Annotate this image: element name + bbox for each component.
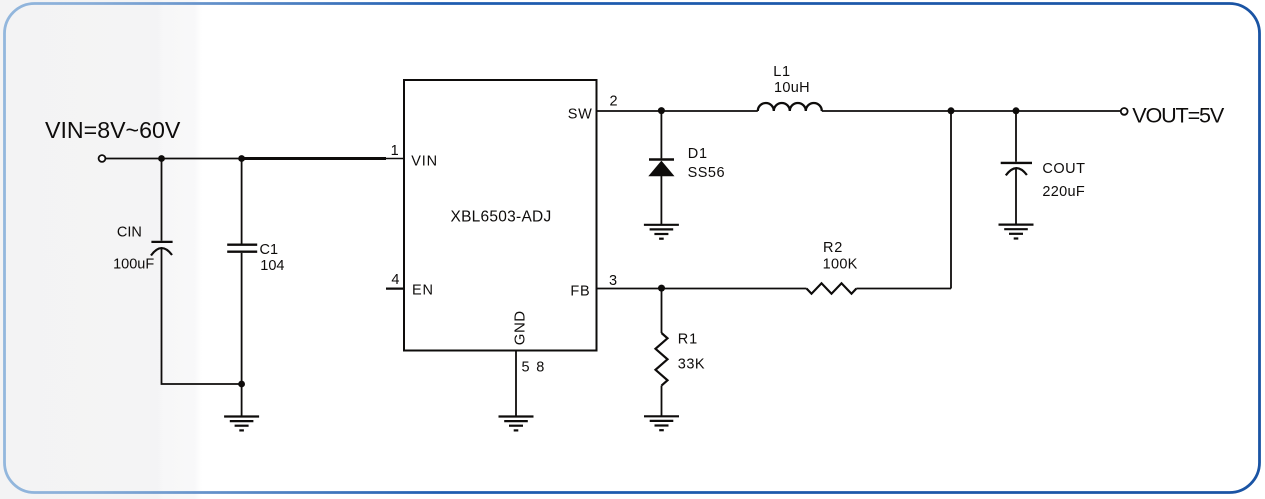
- op-amp U1 XBL6503-ADJ IC body: [404, 80, 597, 351]
- inductor L1: [758, 103, 822, 111]
- node junction SW-D1: [658, 107, 665, 114]
- node junction VIN-C1: [238, 155, 245, 162]
- wire R2 to vertical: [856, 288, 951, 290]
- ground below D1: [644, 225, 679, 239]
- wire SW net from pin 2: [597, 110, 758, 112]
- wire FB net from pin 3: [597, 288, 807, 290]
- svg-text:104: 104: [260, 258, 284, 274]
- svg-text:D1: D1: [688, 146, 708, 162]
- svg-text:C1: C1: [260, 242, 279, 258]
- wire COUT to ground: [1015, 169, 1017, 225]
- ground below R1: [644, 416, 679, 430]
- svg-text:EN: EN: [412, 283, 434, 299]
- node VOUT terminal: [1121, 108, 1128, 115]
- svg-text:VIN=8V~60V: VIN=8V~60V: [45, 117, 181, 143]
- svg-text:L1: L1: [773, 64, 791, 80]
- svg-text:CIN: CIN: [117, 224, 142, 240]
- svg-text:4: 4: [391, 272, 399, 288]
- ground below C1: [224, 417, 259, 431]
- svg-text:1: 1: [391, 143, 399, 159]
- node junction VIN-CIN: [158, 155, 165, 162]
- wire CIN bottom: [162, 249, 242, 384]
- svg-text:100K: 100K: [823, 256, 858, 272]
- wire COUT drop: [1015, 111, 1017, 162]
- svg-text:R2: R2: [823, 240, 843, 256]
- svg-text:VIN: VIN: [411, 153, 438, 169]
- wire VIN rail thin: [106, 158, 242, 160]
- ground below COUT: [999, 225, 1034, 239]
- wire VIN rail thick: [242, 157, 387, 160]
- svg-text:100uF: 100uF: [113, 257, 154, 273]
- diode D1 cathode bar: [649, 158, 674, 160]
- node junction rail-COUT: [1013, 107, 1020, 114]
- wire VIN pin stub: [386, 158, 404, 160]
- ground below GND pin: [499, 417, 534, 431]
- svg-text:SW: SW: [568, 107, 593, 123]
- svg-text:XBL6503-ADJ: XBL6503-ADJ: [451, 209, 552, 226]
- resistor R2: [807, 283, 857, 293]
- node VIN input terminal: [99, 155, 106, 162]
- svg-text:220uF: 220uF: [1042, 184, 1085, 200]
- wire D1 to ground: [660, 176, 662, 225]
- svg-text:10uH: 10uH: [774, 80, 810, 96]
- resistor R1: [656, 333, 668, 386]
- wire feedback vertical from rail: [950, 111, 952, 289]
- svg-text:FB: FB: [570, 284, 590, 300]
- svg-text:GND: GND: [512, 310, 529, 345]
- wire CIN top: [161, 159, 163, 241]
- svg-text:COUT: COUT: [1042, 161, 1085, 177]
- wire SW net after L1: [822, 110, 1121, 112]
- node junction FB-R1: [658, 285, 665, 292]
- svg-text:SS56: SS56: [688, 165, 725, 181]
- wire R1 top: [661, 289, 663, 334]
- capacitor CIN: [151, 242, 173, 256]
- wire D1 anode drop: [660, 111, 662, 158]
- wire C1 bottom: [241, 253, 243, 416]
- svg-text:5 8: 5 8: [522, 360, 546, 376]
- svg-text:VOUT=5V: VOUT=5V: [1132, 102, 1225, 127]
- wire R1 bottom: [661, 386, 663, 416]
- node junction CIN-C1 ground net: [238, 381, 245, 388]
- svg-text:R1: R1: [678, 331, 698, 347]
- svg-text:3: 3: [609, 273, 617, 289]
- svg-text:33K: 33K: [678, 356, 705, 372]
- node junction rail-R2: [948, 107, 955, 114]
- wire EN pin stub: [386, 288, 404, 290]
- svg-text:2: 2: [609, 94, 617, 110]
- wire GND pin stub: [515, 351, 517, 417]
- capacitor COUT: [1001, 163, 1032, 176]
- wire C1 top: [241, 159, 243, 245]
- diode D1 triangle: [648, 161, 674, 177]
- capacitor C1: [227, 245, 257, 252]
